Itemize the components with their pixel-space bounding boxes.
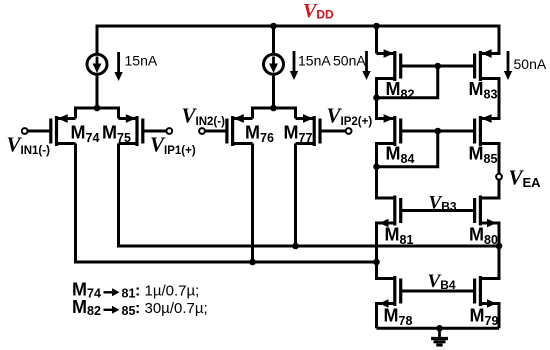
- label VIP1(+): [150, 133, 196, 158]
- svg-text:1µ/0.7µ;: 1µ/0.7µ;: [145, 283, 200, 300]
- wire M76 drain: [251, 144, 254, 263]
- label VB4: [428, 271, 456, 292]
- transistor M74: [51, 114, 100, 146]
- wire M79 source to ground rail: [498, 302, 501, 328]
- ground: [431, 328, 448, 345]
- transistor M80: [469, 196, 499, 248]
- wire M82-M83 gate line: [401, 65, 475, 68]
- svg-text:85: 85: [122, 304, 136, 318]
- label VIN2(-): [182, 104, 226, 129]
- svg-text:50nA: 50nA: [514, 56, 547, 72]
- wire VB3 gate line: [401, 209, 475, 212]
- wire VDD to I2: [272, 25, 275, 55]
- wire M82 gate-drain diode link: [377, 66, 438, 98]
- wire right trunk M80 source to M79 drain: [498, 222, 501, 281]
- wire left trunk M82 drain to M84 source: [375, 77, 378, 120]
- wire M84-M85 gate line: [401, 130, 475, 133]
- transistor M85: [469, 114, 500, 166]
- current source I1 15nA: [87, 54, 107, 74]
- node ground tap: [436, 325, 443, 332]
- terminal VIN1: [22, 128, 28, 134]
- node M84 drain diode: [373, 163, 380, 170]
- label VIN1(-): [7, 133, 51, 158]
- transistor M77: [284, 114, 321, 146]
- svg-text::: :: [135, 283, 140, 300]
- label 15nA middle: [298, 53, 331, 69]
- wire right trunk M83 drain to M85 source: [498, 77, 501, 120]
- node tail 1: [94, 105, 101, 112]
- terminal VEA: [496, 174, 502, 180]
- node M77 drain / node B: [292, 243, 299, 250]
- wire M78 source to ground rail: [375, 302, 378, 328]
- wire M74 drain to node A: [76, 144, 377, 263]
- transistor M78: [377, 276, 413, 328]
- label sizing M74-81: [72, 280, 199, 301]
- label 50nA right: [514, 56, 547, 72]
- svg-text:15nA: 15nA: [125, 53, 158, 69]
- wire I1 to tail node 1: [96, 74, 99, 108]
- wire M82 source drop: [375, 25, 378, 54]
- transistor M84: [377, 114, 415, 166]
- node M76 drain / node A: [249, 259, 256, 266]
- wire ground rail: [377, 327, 500, 330]
- svg-text:50nA: 50nA: [333, 53, 366, 69]
- node gate line row3: [434, 128, 441, 135]
- node VDD / M82 source tap: [373, 23, 380, 30]
- terminal VIP2: [346, 128, 352, 134]
- current arrow 15nA middle: [290, 51, 298, 80]
- svg-text:15nA: 15nA: [298, 53, 331, 69]
- svg-text:81: 81: [122, 287, 136, 301]
- wire tail node 1 rail: [76, 108, 119, 119]
- current source I2 15nA: [264, 54, 284, 74]
- wire left trunk M84 drain to M81 drain: [375, 142, 378, 200]
- wire left trunk M81 source to M78 drain: [375, 222, 378, 281]
- wire right trunk M85 drain to M80 drain: [498, 142, 501, 200]
- current arrow 50nA right: [504, 51, 512, 80]
- transistor M83: [469, 49, 500, 101]
- wire VIN2 gate lead: [205, 130, 227, 133]
- transistor M81: [377, 196, 414, 248]
- wire VIP1 gate lead: [143, 130, 167, 133]
- label sizing M82-85: [72, 297, 208, 318]
- label VIP2(+): [327, 104, 373, 129]
- node B to right trunk: [496, 243, 503, 250]
- wire M84 gate-drain diode link: [377, 131, 438, 167]
- wire VDD rail: [97, 26, 499, 55]
- node tail 2: [270, 105, 277, 112]
- label VEA: [509, 166, 542, 191]
- label 50nA middle: [333, 53, 366, 69]
- wire M75 drain to node B: [119, 144, 500, 247]
- wire VIP2 gate lead: [320, 130, 346, 133]
- wire VIN1 gate lead: [27, 130, 50, 133]
- current arrow 15nA left: [114, 52, 122, 81]
- transistor M76: [227, 114, 274, 146]
- transistor M82: [377, 49, 415, 101]
- label VB3: [429, 193, 457, 214]
- wire M77 drain: [294, 144, 297, 247]
- transistor M79: [470, 276, 500, 328]
- svg-text:30µ/0.7µ;: 30µ/0.7µ;: [145, 300, 208, 317]
- terminal VIP1: [166, 128, 172, 134]
- wire VB4 gate line: [401, 290, 475, 293]
- node M82 drain diode: [373, 94, 380, 101]
- terminal VIN2: [199, 128, 205, 134]
- node gate line row2: [434, 63, 441, 70]
- transistor M75: [102, 114, 143, 146]
- svg-text::: :: [135, 300, 140, 317]
- node VDD / current source I2 tap: [270, 23, 277, 30]
- label 15nA left: [125, 53, 158, 69]
- current arrow 50nA middle: [362, 51, 370, 80]
- wire I2 to tail node 2: [272, 74, 275, 108]
- node A to left trunk: [373, 259, 380, 266]
- wire tail node 2 rail: [253, 108, 296, 119]
- label VDD: [303, 0, 334, 22]
